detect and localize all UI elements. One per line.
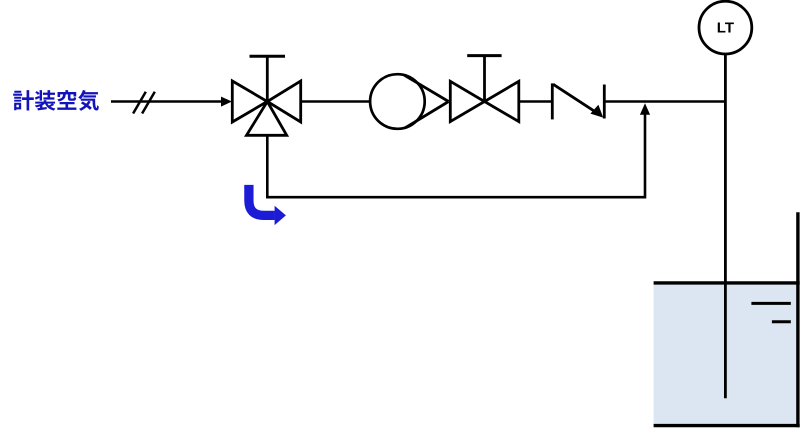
valve V2 actuator T-bar xyxy=(467,54,501,57)
svg-text:LT: LT xyxy=(717,20,734,37)
supply line xyxy=(111,100,223,103)
main line to LT dip tube xyxy=(604,100,725,103)
flow arrowhead into valve V1 xyxy=(221,97,232,107)
level mark long xyxy=(751,302,790,305)
tank bottom xyxy=(654,424,800,427)
instrument bubble LT xyxy=(699,1,752,54)
needle valve V2 body xyxy=(450,81,519,121)
blue vent direction arrow xyxy=(249,185,275,216)
return line up arrowhead at junction xyxy=(640,103,650,115)
level mark short xyxy=(772,320,791,323)
three-way valve V1 body xyxy=(232,81,300,135)
check valve right bar xyxy=(603,85,606,119)
valve V1 actuator T-bar xyxy=(250,55,286,58)
label 計装空気 (instrument air supply) xyxy=(13,90,99,111)
dip tube from LT into tank xyxy=(724,54,727,398)
wire V2 to check valve xyxy=(519,100,553,103)
valve V1 stem xyxy=(266,56,269,101)
tank liquid fill xyxy=(654,284,798,425)
vent return line from V1 bottom xyxy=(267,113,645,198)
line break symbol // xyxy=(133,92,155,114)
wire V1 to purge meter xyxy=(301,100,371,103)
valve V2 stem xyxy=(483,56,486,102)
check valve diagonal arrow xyxy=(553,84,596,112)
tank liquid surface line xyxy=(654,281,800,284)
tank right wall xyxy=(796,212,799,427)
purge meter FI circle xyxy=(370,74,425,129)
purge meter cone xyxy=(404,75,448,128)
check valve left bar xyxy=(551,83,554,119)
